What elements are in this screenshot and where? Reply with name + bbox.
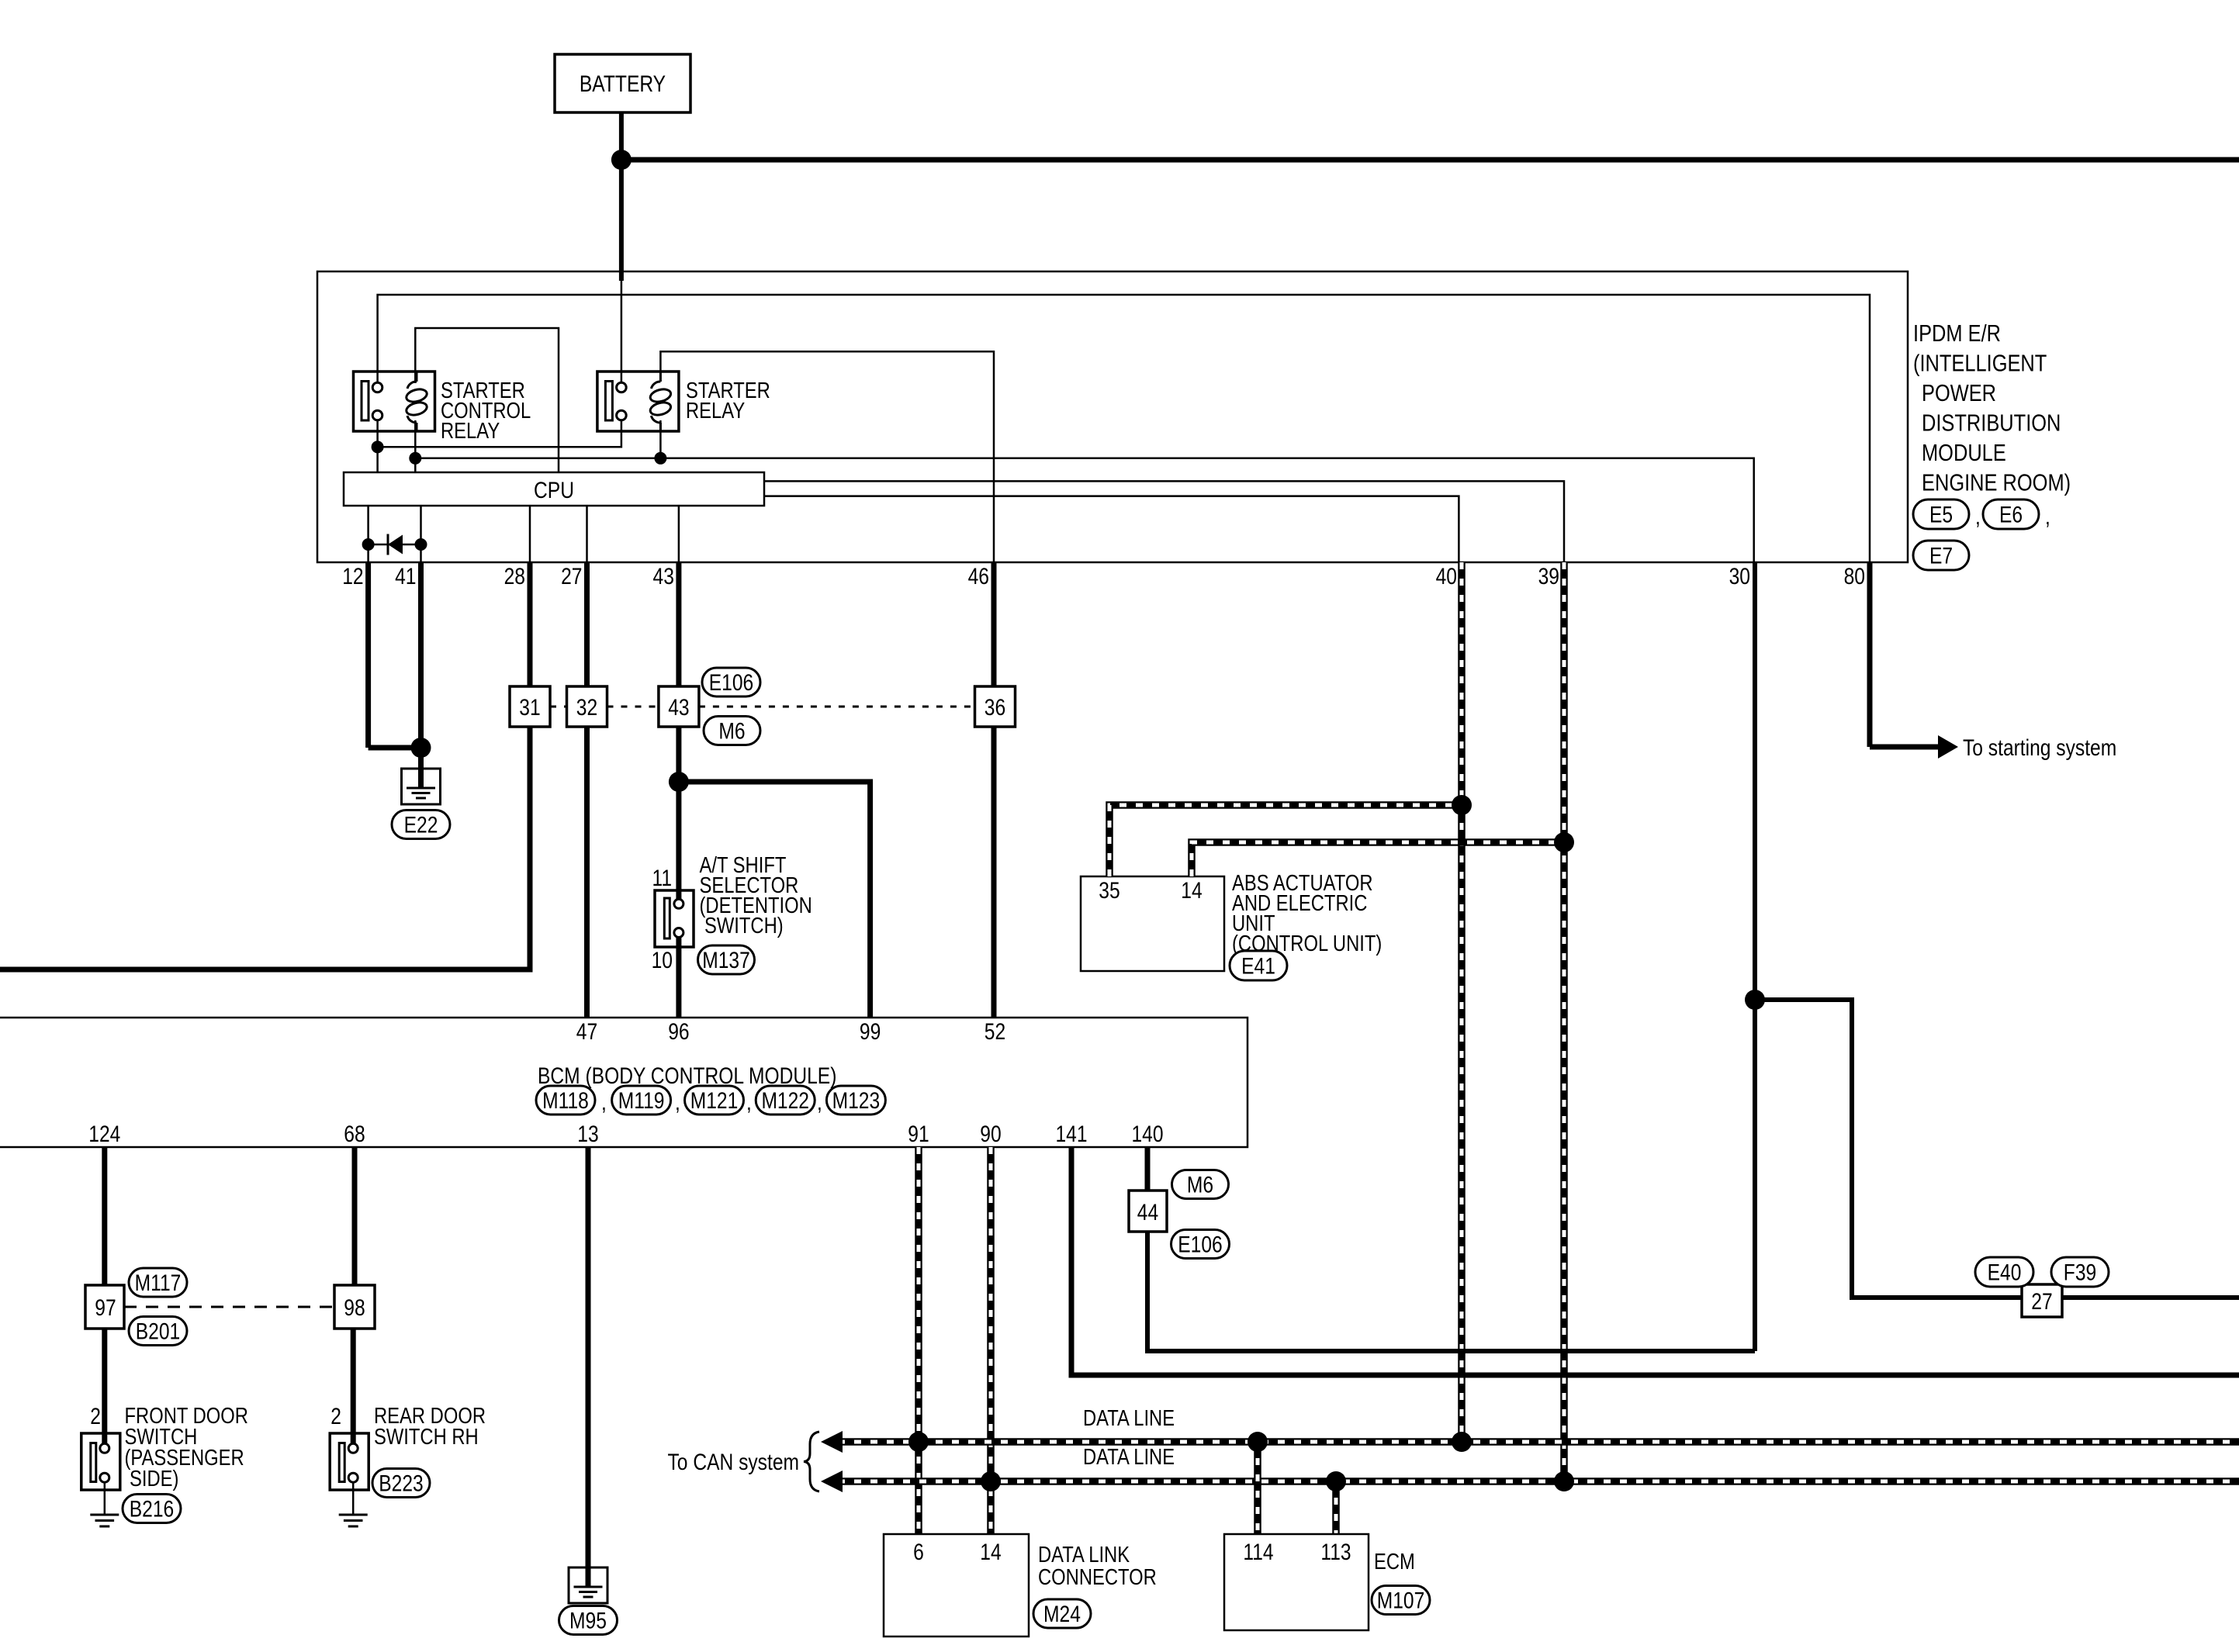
svg-text:99: 99 <box>860 1019 881 1045</box>
svg-text:11: 11 <box>652 866 673 891</box>
svg-text:35: 35 <box>1099 878 1119 904</box>
svg-text:E5: E5 <box>1929 503 1953 528</box>
svg-text:68: 68 <box>344 1121 365 1147</box>
svg-text:E22: E22 <box>404 813 438 838</box>
svg-text:,: , <box>1975 504 1981 530</box>
svg-text:44: 44 <box>1137 1200 1158 1225</box>
svg-text:98: 98 <box>344 1295 365 1321</box>
svg-text:RELAY: RELAY <box>686 399 745 423</box>
svg-text:,: , <box>675 1090 680 1115</box>
svg-text:SIDE): SIDE) <box>130 1467 178 1491</box>
svg-text:DISTRIBUTION: DISTRIBUTION <box>1922 410 2061 437</box>
svg-text:BATTERY: BATTERY <box>580 71 666 97</box>
svg-text:14: 14 <box>980 1540 1001 1565</box>
svg-text:B201: B201 <box>136 1319 181 1345</box>
svg-text:F39: F39 <box>2064 1260 2096 1286</box>
svg-text:10: 10 <box>652 948 673 973</box>
svg-text:POWER: POWER <box>1922 379 1996 406</box>
svg-text:39: 39 <box>1538 564 1559 589</box>
svg-text:46: 46 <box>968 564 989 589</box>
svg-text:12: 12 <box>342 564 363 589</box>
svg-text:B223: B223 <box>379 1471 424 1497</box>
svg-text:E106: E106 <box>1178 1232 1223 1258</box>
svg-text:52: 52 <box>985 1019 1005 1045</box>
svg-text:43: 43 <box>653 564 674 589</box>
svg-text:36: 36 <box>985 695 1005 721</box>
svg-text:M6: M6 <box>718 719 745 745</box>
svg-text:90: 90 <box>980 1121 1001 1147</box>
svg-text:(INTELLIGENT: (INTELLIGENT <box>1913 350 2047 377</box>
svg-text:ENGINE ROOM): ENGINE ROOM) <box>1922 469 2071 496</box>
svg-text:30: 30 <box>1729 564 1750 589</box>
svg-text:141: 141 <box>1056 1121 1088 1147</box>
svg-text:SWITCH RH: SWITCH RH <box>374 1425 479 1450</box>
svg-text:DATA LINE: DATA LINE <box>1083 1406 1175 1431</box>
svg-text:97: 97 <box>95 1295 116 1321</box>
svg-text:40: 40 <box>1436 564 1457 589</box>
svg-text:,: , <box>2045 504 2050 530</box>
svg-text:31: 31 <box>519 695 540 721</box>
svg-text:13: 13 <box>577 1121 598 1147</box>
svg-text:To starting system: To starting system <box>1963 735 2116 761</box>
svg-text:140: 140 <box>1132 1121 1164 1147</box>
svg-text:27: 27 <box>2031 1289 2052 1315</box>
svg-text:E41: E41 <box>1241 954 1275 980</box>
svg-text:ECM: ECM <box>1374 1550 1415 1574</box>
svg-text:96: 96 <box>668 1019 689 1045</box>
svg-text:32: 32 <box>576 695 597 721</box>
svg-text:6: 6 <box>913 1540 924 1565</box>
svg-text:28: 28 <box>504 564 525 589</box>
svg-text:CPU: CPU <box>534 478 574 503</box>
svg-text:2: 2 <box>330 1404 341 1429</box>
svg-text:B216: B216 <box>130 1497 175 1522</box>
svg-text:M118: M118 <box>542 1088 589 1114</box>
svg-text:CONNECTOR: CONNECTOR <box>1038 1565 1157 1590</box>
svg-text:M117: M117 <box>135 1270 182 1296</box>
svg-text:M6: M6 <box>1187 1173 1213 1198</box>
svg-text:E106: E106 <box>709 670 754 696</box>
svg-text:124: 124 <box>88 1121 120 1147</box>
svg-text:E7: E7 <box>1929 544 1953 569</box>
svg-text:RELAY: RELAY <box>441 419 500 444</box>
svg-text:IPDM E/R: IPDM E/R <box>1913 320 2001 347</box>
svg-text:M107: M107 <box>1377 1588 1425 1614</box>
svg-text:M121: M121 <box>690 1088 739 1114</box>
svg-text:M122: M122 <box>761 1088 809 1114</box>
svg-text:M95: M95 <box>569 1609 607 1634</box>
svg-text:M24: M24 <box>1043 1602 1081 1627</box>
svg-text:14: 14 <box>1181 878 1202 904</box>
svg-text:SWITCH): SWITCH) <box>704 914 784 938</box>
svg-text:,: , <box>746 1090 752 1115</box>
svg-text:91: 91 <box>908 1121 929 1147</box>
svg-text:80: 80 <box>1844 564 1865 589</box>
svg-text:DATA LINE: DATA LINE <box>1083 1445 1175 1470</box>
svg-text:DATA LINK: DATA LINK <box>1038 1543 1130 1567</box>
svg-text:M123: M123 <box>832 1088 881 1114</box>
svg-text:M137: M137 <box>702 948 750 973</box>
svg-text:E40: E40 <box>1988 1260 2022 1286</box>
svg-text:,: , <box>601 1090 607 1115</box>
svg-text:2: 2 <box>90 1404 101 1429</box>
svg-text:MODULE: MODULE <box>1922 439 2006 466</box>
svg-text:47: 47 <box>576 1019 597 1045</box>
svg-text:27: 27 <box>561 564 582 589</box>
svg-text:113: 113 <box>1320 1540 1351 1565</box>
svg-text:M119: M119 <box>618 1088 665 1114</box>
svg-text:114: 114 <box>1243 1540 1273 1565</box>
svg-text:43: 43 <box>668 695 689 721</box>
svg-text:E6: E6 <box>1999 503 2023 528</box>
svg-text:41: 41 <box>395 564 416 589</box>
svg-text:To CAN system: To CAN system <box>668 1450 800 1475</box>
svg-text:,: , <box>817 1090 822 1115</box>
